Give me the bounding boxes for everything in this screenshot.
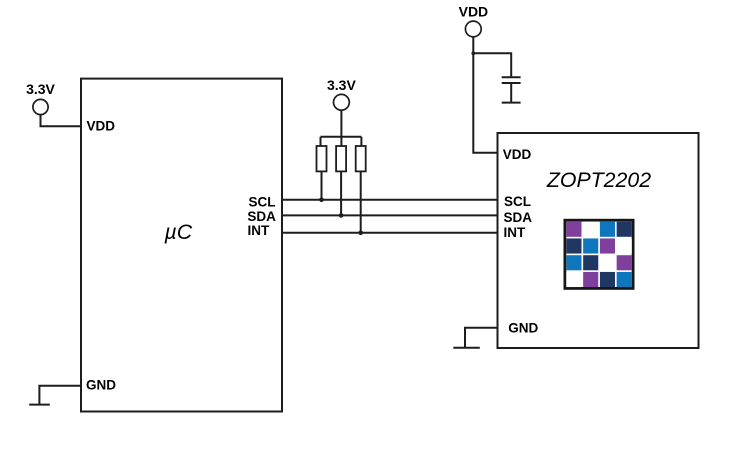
svg-text:SDA: SDA xyxy=(247,209,276,224)
wire bus to R1 top xyxy=(320,137,322,146)
svg-text:VDD: VDD xyxy=(503,147,532,162)
svg-text:VDD: VDD xyxy=(459,4,489,20)
svg-text:µC: µC xyxy=(164,220,193,244)
ground symbol (µC GND) xyxy=(29,386,81,405)
wire 3.3V left to µC VDD pin xyxy=(41,115,82,127)
µC box xyxy=(81,79,282,412)
supply VDD top terminal circle xyxy=(465,21,481,37)
ZOPT2202 logo pixel grid xyxy=(564,219,635,290)
svg-text:SDA: SDA xyxy=(504,210,533,225)
svg-text:3.3V: 3.3V xyxy=(327,77,356,93)
capacitor C1 plates xyxy=(502,77,521,83)
wire VDD supply to ZOPT2202 VDD pin xyxy=(473,37,497,153)
logo row 2 xyxy=(566,238,581,253)
logo row 1 xyxy=(566,222,581,237)
svg-text:3.3V: 3.3V xyxy=(26,81,55,97)
svg-text:INT: INT xyxy=(504,225,527,240)
ZOPT2202 box xyxy=(498,133,699,348)
wire bus to R3 top xyxy=(360,137,362,146)
wire SCL bus xyxy=(282,199,498,201)
logo row 3 xyxy=(566,255,581,270)
wire 3.3V middle down to resistor bus xyxy=(340,110,342,146)
wire R2 to SDA xyxy=(340,171,342,215)
wire capacitor to ground xyxy=(510,83,512,103)
svg-text:VDD: VDD xyxy=(87,118,116,133)
junction dot R1/SCL xyxy=(319,198,324,203)
supply 3.3V left terminal circle xyxy=(33,99,48,114)
wire R1 to SCL xyxy=(321,171,323,199)
junction dot R2/SDA xyxy=(339,213,344,218)
wire branch to capacitor C1 xyxy=(473,53,511,77)
svg-text:SCL: SCL xyxy=(504,194,531,209)
svg-text:GND: GND xyxy=(508,321,538,336)
svg-text:ZOPT2202: ZOPT2202 xyxy=(546,168,651,192)
logo row 4 xyxy=(566,272,581,287)
wire SDA bus xyxy=(282,214,498,216)
wire ZOPT2202 GND pin to ground xyxy=(465,328,498,348)
supply 3.3V middle terminal circle xyxy=(334,94,350,110)
svg-text:INT: INT xyxy=(248,223,271,238)
resistor R2 (SDA pull-up) xyxy=(336,146,346,171)
svg-text:GND: GND xyxy=(86,378,116,393)
resistor R3 (INT pull-up) xyxy=(356,146,366,171)
ground bar (capacitor) xyxy=(502,102,521,104)
wire INT bus xyxy=(282,232,498,234)
resistor R1 (SCL pull-up) xyxy=(317,146,327,171)
svg-text:SCL: SCL xyxy=(249,194,276,209)
junction dot VDD branch xyxy=(471,51,475,55)
resistor top bus xyxy=(321,136,362,138)
wire R3 to INT xyxy=(360,171,362,232)
ground bar (ZOPT2202) xyxy=(453,347,480,349)
junction dot R3/INT xyxy=(358,231,363,236)
